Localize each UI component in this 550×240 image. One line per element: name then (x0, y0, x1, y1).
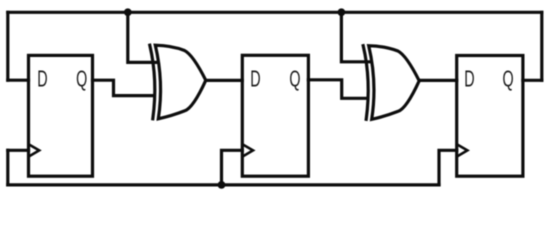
wire Q1 to XOR1 lower input (93, 80, 155, 95)
junction dot on top rail (XOR2 tap) (338, 8, 346, 16)
flip-flop FF1 box (29, 55, 93, 176)
svg-text:Q: Q (289, 66, 300, 93)
svg-text:D: D (250, 66, 260, 93)
wire FF3 clock riser and stub (439, 150, 457, 185)
wire D1 input stub (8, 79, 29, 82)
wire left clock riser (6, 150, 9, 185)
wire left feedback drop (6, 12, 9, 80)
xor gate X1 (150, 45, 206, 119)
wire Q2 to XOR2 lower input (308, 80, 367, 99)
xor gate X2 (363, 46, 419, 120)
wire bottom clock rail (8, 183, 439, 186)
wire FF2 clock riser and stub (222, 150, 243, 185)
wire Q3 output stub (523, 79, 542, 82)
svg-text:D: D (37, 66, 47, 93)
svg-text:Q: Q (76, 66, 87, 93)
wire XOR1 output to D2 (206, 79, 243, 82)
wire tap to XOR1 top input (128, 12, 158, 62)
wire right riser from Q3 to top rail (540, 12, 543, 80)
svg-text:Q: Q (503, 66, 514, 93)
svg-text:D: D (464, 66, 474, 93)
wire FF1 clock stub (8, 149, 29, 152)
flip-flop FF2 box (242, 55, 308, 176)
wire XOR2 output to D3 (419, 79, 457, 82)
wire top feedback rail (8, 11, 542, 14)
FF1 clock triangle (29, 144, 40, 156)
junction dot on top rail (XOR1 tap) (124, 8, 132, 16)
wire tap to XOR2 top input (341, 12, 371, 62)
junction dot on bottom rail (FF2 clock) (218, 181, 226, 189)
flip-flop FF3 box (457, 56, 523, 177)
FF2 clock triangle (242, 144, 253, 156)
FF3 clock triangle (457, 144, 468, 156)
